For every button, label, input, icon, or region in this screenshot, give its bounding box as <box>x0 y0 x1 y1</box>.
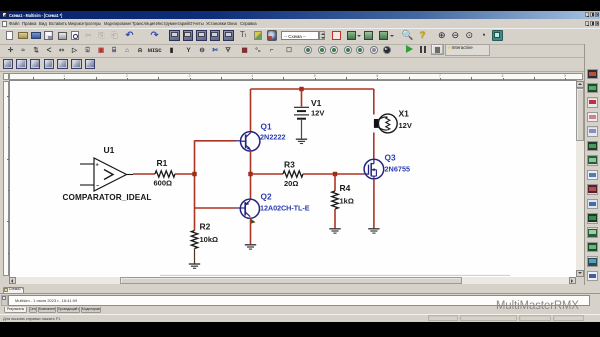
svg-text:Q3: Q3 <box>385 152 396 162</box>
svg-text:1kΩ: 1kΩ <box>340 196 354 205</box>
svg-text:Q1: Q1 <box>261 121 272 131</box>
svg-text:−: − <box>96 183 99 189</box>
svg-text:+: + <box>96 162 99 168</box>
svg-text:12A02CH-TL-E: 12A02CH-TL-E <box>260 203 310 212</box>
svg-text:X1: X1 <box>399 108 410 118</box>
svg-text:R2: R2 <box>200 221 211 231</box>
svg-text:R3: R3 <box>284 159 295 169</box>
svg-text:10kΩ: 10kΩ <box>200 235 219 244</box>
svg-text:20Ω: 20Ω <box>284 179 298 188</box>
svg-text:R4: R4 <box>340 183 351 193</box>
svg-text:COMPARATOR_IDEAL: COMPARATOR_IDEAL <box>63 193 152 202</box>
svg-text:R1: R1 <box>157 158 168 168</box>
svg-text:2N6755: 2N6755 <box>385 164 411 173</box>
svg-text:12V: 12V <box>311 108 324 117</box>
svg-text:12V: 12V <box>399 121 412 130</box>
svg-text:600Ω: 600Ω <box>154 178 173 187</box>
svg-text:U1: U1 <box>104 145 115 155</box>
svg-text:2N2222: 2N2222 <box>260 132 286 141</box>
svg-text:Q2: Q2 <box>261 191 272 201</box>
svg-text:V1: V1 <box>311 97 322 107</box>
